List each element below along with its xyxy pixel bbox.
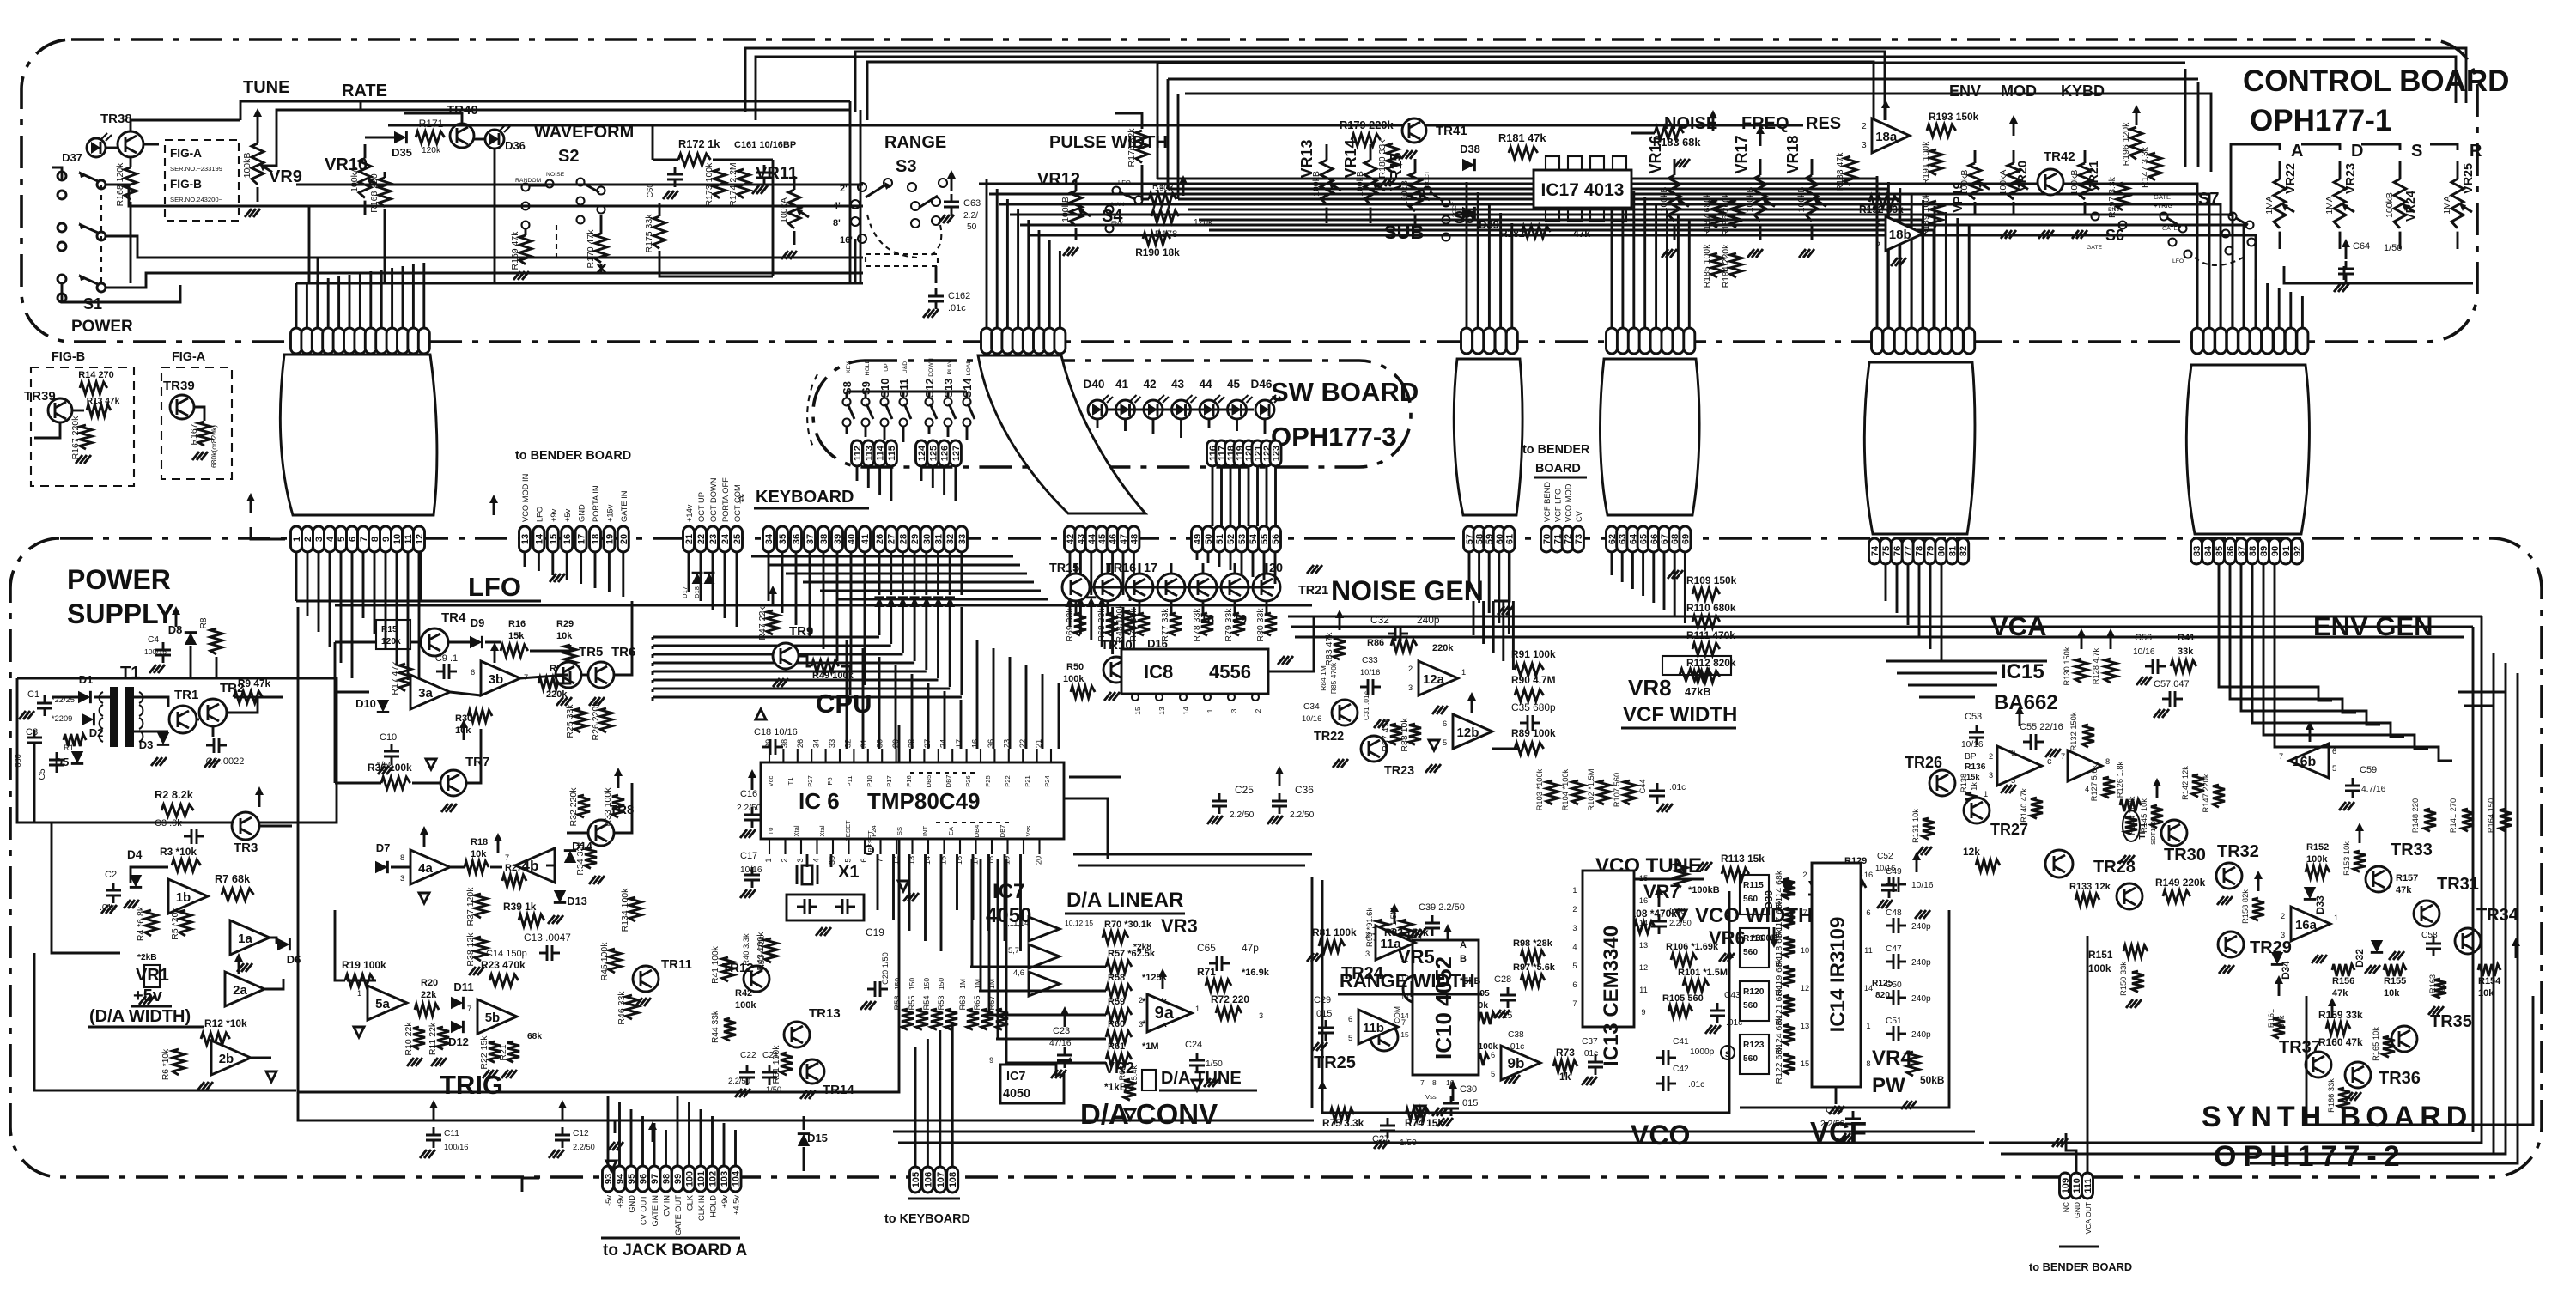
svg-text:R167 220k: R167 220k (70, 416, 81, 460)
svg-text:3: 3 (1230, 708, 1238, 713)
svg-text:1: 1 (357, 989, 361, 998)
resistor R22 15k / R21 (489, 1041, 501, 1062)
svg-text:1/50: 1/50 (1206, 1059, 1223, 1069)
resistor R121 (1783, 995, 1795, 1016)
svg-text:8: 8 (400, 853, 404, 862)
svg-text:VCO MOD: VCO MOD (1564, 483, 1573, 522)
svg-text:2.2/50: 2.2/50 (1290, 810, 1315, 820)
svg-text:D/A CONV: D/A CONV (1080, 1098, 1218, 1130)
resistor R38 12k (475, 937, 487, 961)
wire to bundle F pin 9 (2301, 296, 2304, 328)
svg-text:R181 47k: R181 47k (1498, 131, 1546, 144)
svg-text:TR27: TR27 (1990, 821, 2028, 838)
svg-text:VCF BEND: VCF BEND (1543, 482, 1552, 522)
resistor R32 220k / R33 100k (578, 795, 590, 817)
transistor TR21 (1253, 574, 1280, 601)
svg-text:9: 9 (2011, 749, 2015, 757)
svg-text:R98 *28k: R98 *28k (1513, 938, 1553, 949)
svg-text:*2kB: *2kB (137, 953, 157, 962)
wire to bundle F pin 2 (2220, 266, 2222, 328)
svg-text:DB7: DB7 (945, 775, 952, 788)
svg-text:5b: 5b (485, 1011, 501, 1025)
svg-text:D4: D4 (127, 848, 143, 861)
potentiometer VR11 (788, 190, 800, 228)
svg-text:R166 33k: R166 33k (2327, 1078, 2336, 1113)
op-amp 12b (1453, 714, 1492, 749)
svg-text:R97 *5.6k: R97 *5.6k (1513, 962, 1556, 973)
svg-text:240p: 240p (1911, 958, 1931, 968)
wire vco bus horizontals (1073, 853, 1312, 856)
svg-text:TR26: TR26 (1905, 754, 1942, 771)
svg-text:2: 2 (781, 858, 789, 862)
wire to bundle B pin 1 (996, 189, 999, 328)
resistor R34 33k (585, 847, 597, 868)
svg-text:33: 33 (957, 534, 968, 544)
svg-text:R175 33k: R175 33k (644, 214, 654, 253)
svg-text:34: 34 (764, 533, 775, 544)
svg-text:2: 2 (1572, 905, 1577, 914)
switch S3 rotary (858, 183, 866, 191)
svg-text:12: 12 (1801, 984, 1809, 993)
svg-text:R127 5.6k: R127 5.6k (2090, 764, 2099, 801)
svg-text:KEY: KEY (846, 361, 852, 373)
resistor R123 (1740, 1035, 1769, 1074)
svg-text:C58: C58 (2421, 931, 2438, 940)
svg-text:2b: 2b (219, 1052, 234, 1066)
svg-text:NOISE: NOISE (1664, 114, 1717, 133)
svg-text:16: 16 (971, 739, 980, 748)
wire keyboard verticals (914, 1047, 917, 1167)
svg-text:17: 17 (1144, 562, 1157, 575)
svg-text:TMP80C49: TMP80C49 (867, 788, 981, 814)
svg-text:C24: C24 (1185, 1040, 1202, 1050)
svg-text:24: 24 (720, 533, 731, 544)
svg-text:125: 125 (928, 446, 939, 461)
svg-text:D35: D35 (392, 146, 412, 159)
svg-text:TR36: TR36 (2379, 1069, 2421, 1088)
transistor 20 (1221, 574, 1249, 601)
svg-text:9: 9 (989, 1056, 993, 1065)
svg-text:TR33: TR33 (2391, 841, 2433, 859)
wire to bundle E pin 0 (1876, 176, 1879, 328)
diode D1 (78, 691, 90, 703)
svg-text:T1: T1 (787, 778, 794, 786)
connector bundle D (1607, 328, 1618, 354)
svg-text:16b: 16b (2293, 755, 2317, 769)
svg-text:C63: C63 (963, 198, 981, 209)
capacitor C60 .01c (674, 167, 677, 174)
svg-text:111: 111 (2083, 1178, 2093, 1193)
svg-text:100kB: 100kB (1796, 187, 1807, 213)
svg-text:C55 22/16: C55 22/16 (2020, 722, 2063, 732)
svg-text:R120: R120 (1743, 987, 1765, 997)
svg-text:DB4: DB4 (973, 825, 981, 838)
svg-text:97: 97 (650, 1174, 660, 1184)
svg-text:16: 16 (1639, 896, 1648, 905)
svg-text:126: 126 (940, 446, 951, 461)
svg-text:2a: 2a (233, 983, 247, 998)
svg-text:8: 8 (2105, 757, 2110, 766)
svg-text:GND: GND (578, 504, 586, 522)
svg-text:10: 10 (1801, 946, 1809, 955)
switch S14 (963, 398, 971, 406)
wire to bundle C pin 1 (1477, 192, 1479, 328)
svg-text:3: 3 (2281, 931, 2285, 939)
svg-text:13: 13 (1639, 941, 1648, 950)
svg-text:R7 68k: R7 68k (215, 872, 251, 885)
transistor TR35 (2391, 1026, 2417, 1052)
svg-text:73: 73 (1574, 534, 1584, 544)
svg-text:D46: D46 (1251, 378, 1273, 391)
control board outline OPH177-1 (21, 39, 2477, 342)
svg-text:VR18: VR18 (1784, 135, 1801, 173)
LED 43 (1172, 400, 1191, 419)
op-amp 3a (410, 675, 450, 709)
svg-text:PLAY: PLAY (947, 360, 953, 374)
svg-text:8': 8' (833, 218, 841, 228)
svg-text:P25: P25 (984, 775, 992, 787)
svg-text:X1: X1 (838, 863, 859, 882)
transistor TR24 (1403, 975, 1431, 1003)
wire to bundle E pin 1 (1887, 182, 1890, 328)
IC14 IR3109 (1812, 863, 1861, 1087)
transistor TR2 (199, 699, 227, 726)
svg-text:560: 560 (1743, 948, 1758, 957)
connector pins 1-12 (291, 526, 302, 552)
svg-text:7: 7 (1401, 1018, 1406, 1027)
svg-text:C34: C34 (1303, 702, 1320, 712)
LED 45 (1228, 400, 1247, 419)
svg-text:R101 *1.5M: R101 *1.5M (1678, 968, 1728, 978)
diode D35 (394, 131, 406, 143)
svg-text:R71: R71 (1197, 966, 1216, 978)
connector bundle E (1872, 328, 1883, 354)
svg-text:FREQ: FREQ (1741, 114, 1789, 133)
svg-text:R33 100k: R33 100k (603, 787, 613, 827)
svg-text:240p: 240p (1911, 922, 1931, 932)
connector pins 26-33 (874, 526, 885, 552)
svg-text:DB7: DB7 (999, 825, 1006, 838)
svg-text:3: 3 (1989, 771, 1993, 780)
svg-text:D9: D9 (471, 616, 485, 629)
svg-text:VR15: VR15 (1388, 152, 1405, 191)
svg-text:RES: RES (1806, 114, 1841, 133)
svg-text:R122 68k: R122 68k (1774, 1045, 1784, 1084)
svg-text:C47: C47 (1886, 944, 1902, 954)
svg-text:Vss: Vss (1024, 825, 1032, 836)
svg-text:VCF LFO: VCF LFO (1553, 489, 1562, 522)
svg-text:14: 14 (1639, 919, 1648, 927)
svg-text:220k: 220k (546, 689, 568, 700)
svg-text:GATE: GATE (2162, 226, 2178, 232)
svg-text:34: 34 (812, 739, 821, 748)
svg-text:6: 6 (1572, 980, 1577, 989)
connector bundle A (control board bottom left) (291, 328, 302, 354)
svg-text:105: 105 (911, 1172, 921, 1187)
transistor 18 (1157, 574, 1185, 601)
svg-text:3: 3 (400, 874, 404, 883)
svg-text:108: 108 (948, 1172, 958, 1187)
svg-text:3a: 3a (418, 686, 433, 701)
resistor R188 47k (1844, 156, 1856, 185)
svg-text:1: 1 (1206, 708, 1214, 713)
svg-text:BA662: BA662 (1994, 691, 2058, 714)
svg-text:115: 115 (887, 446, 897, 461)
svg-text:PULSE WIDTH: PULSE WIDTH (1049, 133, 1168, 152)
svg-text:C12: C12 (573, 1129, 589, 1138)
op-amp 18a (1872, 118, 1910, 153)
svg-text:R104 *100k: R104 *100k (1561, 768, 1570, 810)
svg-text:S3: S3 (896, 157, 916, 176)
diodes D30 D31 (1781, 881, 1795, 895)
svg-text:3: 3 (1365, 950, 1370, 958)
resistor R176 82k (1136, 131, 1148, 163)
svg-text:68k: 68k (527, 1032, 542, 1041)
svg-text:R50: R50 (1066, 662, 1084, 672)
svg-text:S7: S7 (2198, 190, 2219, 209)
svg-text:IC15: IC15 (2001, 660, 2044, 683)
svg-text:R54: R54 (922, 995, 931, 1010)
svg-text:C30: C30 (1460, 1084, 1477, 1095)
wire left band 1 (296, 272, 863, 275)
connector pins 62-69 (1607, 526, 1618, 552)
svg-text:R91 100k: R91 100k (1511, 648, 1556, 660)
svg-text:R2 8.2k: R2 8.2k (155, 788, 194, 801)
resistor R1 47 (64, 734, 86, 746)
svg-text:100k: 100k (735, 1000, 756, 1011)
svg-text:C33: C33 (1362, 656, 1378, 665)
svg-text:1OCT: 1OCT (1425, 171, 1431, 186)
svg-text:5: 5 (1443, 738, 1447, 747)
svg-text:27: 27 (887, 534, 897, 544)
svg-text:SER.NO.~233199: SER.NO.~233199 (170, 165, 222, 173)
svg-text:C25: C25 (1235, 784, 1254, 796)
wire bus CPU bottom (877, 854, 879, 910)
svg-text:TUNE: TUNE (243, 78, 289, 97)
svg-text:RANDOM: RANDOM (515, 178, 542, 184)
VCO block frame (1322, 880, 1729, 1113)
svg-text:COM: COM (1393, 1006, 1401, 1023)
svg-text:D12: D12 (448, 1035, 469, 1048)
transistor TR30 (2161, 820, 2187, 846)
svg-text:27: 27 (923, 739, 932, 748)
wire bus band 1 (1168, 189, 1888, 328)
svg-text:GND: GND (628, 1195, 636, 1213)
diode D7 (375, 861, 387, 873)
resistor R120 (1740, 981, 1769, 1021)
diode D6 (277, 938, 289, 950)
svg-text:R38 12k: R38 12k (465, 932, 476, 967)
transistor TR34 (2455, 928, 2481, 954)
wire jack board verticals (607, 1096, 610, 1166)
resistor R17 47k (399, 664, 411, 691)
svg-text:DB5: DB5 (925, 775, 933, 788)
svg-text:C20 1/50: C20 1/50 (881, 952, 890, 985)
svg-text:R47 22k: R47 22k (757, 606, 768, 640)
svg-text:TR1: TR1 (174, 688, 198, 702)
resistor R5 20k (179, 910, 191, 936)
svg-text:C8: C8 (26, 727, 38, 738)
svg-text:1MA: 1MA (2264, 196, 2275, 215)
svg-text:R36 100k: R36 100k (368, 762, 412, 774)
svg-text:R76 33k: R76 33k (1128, 608, 1139, 642)
svg-text:15: 15 (1801, 1059, 1809, 1068)
resistor R9 47k (234, 691, 263, 703)
resistor R197 3.3k (2117, 183, 2129, 210)
svg-text:1: 1 (1866, 1022, 1870, 1030)
transistor TR12 (744, 966, 769, 992)
svg-text:120k: 120k (422, 146, 441, 155)
svg-text:+4.5v: +4.5v (732, 1195, 741, 1215)
transistor TR28 (2045, 850, 2073, 877)
svg-text:+9v: +9v (550, 508, 558, 522)
wire to bundle F pin 6 (2266, 283, 2269, 328)
svg-text:CLK IN: CLK IN (697, 1195, 706, 1221)
svg-text:SS: SS (896, 827, 903, 835)
svg-text:123: 123 (1272, 446, 1282, 461)
svg-text:6: 6 (860, 858, 868, 862)
diode D15 (798, 1134, 810, 1146)
capacitor C11 100/16 (433, 1107, 435, 1120)
svg-text:2: 2 (2281, 912, 2285, 920)
svg-text:50kB: 50kB (1920, 1074, 1945, 1086)
svg-text:4: 4 (1572, 943, 1577, 951)
svg-text:TR4: TR4 (441, 610, 466, 625)
svg-text:R5 *20k: R5 *20k (170, 908, 180, 940)
svg-text:5,7: 5,7 (1008, 946, 1019, 955)
op-amp 5b (477, 999, 517, 1034)
svg-text:R25 33k: R25 33k (565, 704, 575, 738)
diode D5 (71, 751, 83, 763)
resistors R194 R189 (1930, 149, 1942, 175)
svg-text:15k: 15k (508, 631, 525, 641)
svg-text:C28: C28 (1494, 974, 1511, 985)
wire cpu-to-right horizontals (1069, 776, 1121, 779)
svg-text:R180 33k: R180 33k (1377, 139, 1388, 179)
transistor TR29b (2117, 883, 2142, 909)
wire left band 2 (296, 257, 863, 259)
svg-text:R189 100k: R189 100k (1921, 192, 1931, 237)
svg-text:R85 470k: R85 470k (1329, 662, 1338, 694)
svg-text:*16.9k: *16.9k (1242, 968, 1270, 978)
svg-text:VCA OUT: VCA OUT (2084, 1202, 2093, 1234)
svg-text:ENV: ENV (2108, 207, 2120, 213)
svg-text:TR13: TR13 (809, 1006, 841, 1021)
svg-text:C36: C36 (1295, 784, 1314, 796)
svg-text:R169 47k: R169 47k (510, 231, 520, 270)
svg-text:R13 47k: R13 47k (87, 397, 120, 406)
svg-text:22k: 22k (421, 990, 437, 1000)
resistor R83 47k (1334, 637, 1346, 659)
diode D2 (82, 713, 94, 725)
svg-text:R176 82k: R176 82k (1127, 128, 1137, 167)
svg-text:ENV: ENV (1949, 82, 1981, 100)
svg-text:C5: C5 (38, 768, 47, 780)
svg-text:VR3: VR3 (1161, 915, 1198, 937)
svg-text:30: 30 (876, 739, 884, 748)
svg-text:100kB: 100kB (1060, 197, 1071, 222)
svg-text:R167: R167 (189, 423, 199, 445)
transistor TR6 (588, 662, 614, 688)
svg-text:SER.NO.243200~: SER.NO.243200~ (170, 196, 223, 203)
op-amp 4a (410, 850, 450, 884)
svg-text:R42: R42 (735, 988, 752, 999)
svg-text:R11 22k: R11 22k (428, 1022, 438, 1055)
svg-text:C38: C38 (1508, 1030, 1524, 1040)
svg-text:TR21: TR21 (1298, 584, 1328, 598)
wire to bundle E pin 6 (1945, 212, 1947, 328)
svg-text:+5v: +5v (563, 508, 572, 522)
label to KEYBOARD (bottom) (908, 1198, 960, 1200)
op-amp 11b (1358, 1010, 1398, 1044)
svg-text:VR23: VR23 (2344, 163, 2358, 194)
svg-text:R45 100k: R45 100k (599, 942, 610, 981)
svg-text:D36: D36 (505, 139, 526, 152)
svg-text:2: 2 (1862, 122, 1867, 131)
svg-text:3: 3 (1572, 924, 1577, 932)
svg-text:28: 28 (908, 739, 916, 748)
transistor TR40 (450, 124, 474, 148)
svg-text:.01c: .01c (1669, 783, 1686, 792)
wire to bundle C pin 3 (1499, 213, 1502, 328)
svg-text:113: 113 (864, 446, 874, 461)
svg-text:100k: 100k (1063, 674, 1084, 684)
svg-text:5: 5 (2332, 764, 2336, 773)
resistor R4 6.8k (145, 910, 157, 936)
svg-text:C11: C11 (444, 1129, 459, 1138)
connector bundle C (1461, 328, 1473, 354)
svg-text:2: 2 (1254, 708, 1262, 713)
wire to bundle C pin 4 (1510, 223, 1513, 328)
svg-text:D3: D3 (139, 738, 154, 751)
wire D/A bus horizontals (970, 966, 1106, 968)
svg-text:VR1: VR1 (136, 966, 169, 985)
svg-text:GATE: GATE (2154, 193, 2171, 201)
svg-text:c: c (2047, 756, 2052, 767)
svg-text:+9v: +9v (720, 1195, 729, 1209)
svg-text:93: 93 (604, 1174, 614, 1184)
svg-text:150: 150 (922, 978, 931, 990)
svg-text:PORTA IN: PORTA IN (592, 485, 600, 522)
svg-text:29: 29 (891, 739, 900, 748)
transistor 19 (1189, 574, 1217, 601)
resistor R117 (1783, 908, 1795, 928)
svg-text:9b: 9b (1508, 1055, 1525, 1071)
resistor R115 (1740, 875, 1769, 914)
op-amp 1a (230, 920, 270, 955)
transistor TR5 (556, 662, 581, 688)
svg-text:100/16: 100/16 (444, 1143, 468, 1151)
svg-text:220k: 220k (1432, 643, 1454, 653)
svg-text:C44: C44 (1638, 779, 1647, 793)
FIG-B detail box (31, 367, 134, 486)
svg-text:R142 12k: R142 12k (2181, 766, 2190, 800)
svg-text:R150 33k: R150 33k (2119, 962, 2128, 996)
svg-text:18: 18 (591, 534, 601, 544)
diode D9 (470, 636, 482, 648)
svg-text:D15: D15 (807, 1132, 828, 1144)
svg-text:104: 104 (732, 1170, 742, 1187)
svg-text:VR25: VR25 (2462, 163, 2476, 194)
svg-text:C49: C49 (1886, 867, 1902, 877)
svg-text:11b: 11b (1363, 1021, 1384, 1035)
svg-text:8: 8 (1432, 1078, 1437, 1087)
svg-text:C43: C43 (1724, 991, 1741, 1000)
transistor TR31 (2414, 901, 2439, 926)
svg-text:D/A LINEAR: D/A LINEAR (1066, 889, 1183, 912)
svg-text:TR41: TR41 (1436, 124, 1467, 138)
op-amp 18b (1886, 216, 1923, 251)
